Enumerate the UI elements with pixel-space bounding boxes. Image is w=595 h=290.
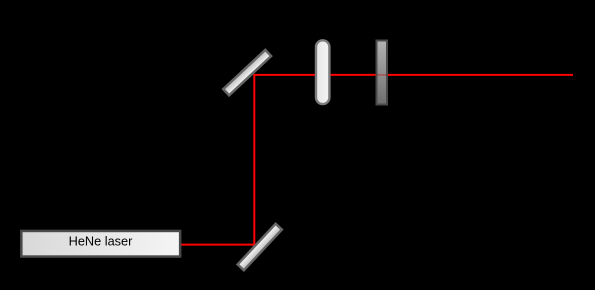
wire: attenuated beam segment visible through glass plate: [378, 74, 387, 76]
lens (capsule-shaped optic): [316, 40, 329, 104]
svg-text:HeNe laser: HeNe laser: [69, 234, 134, 249]
HeNe laser box: [21, 231, 180, 257]
mirror M2 (lower steering mirror): [238, 224, 282, 271]
mirror M1 (upper steering mirror): [223, 50, 271, 95]
glass plate (attenuator): [377, 41, 388, 105]
wire: laser beam path (HeNe laser -> lower mirror -> upper mirror -> right edge): [181, 75, 573, 245]
